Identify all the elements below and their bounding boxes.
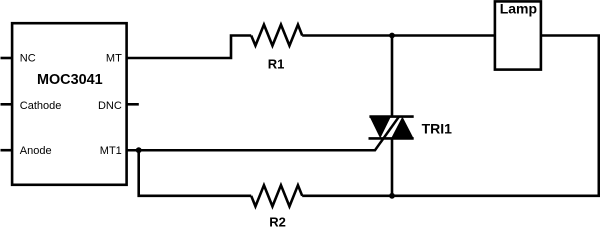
label TRI1 [422, 120, 453, 136]
label R1 [268, 56, 285, 71]
svg-text:R2: R2 [269, 214, 286, 229]
svg-text:R1: R1 [268, 56, 285, 71]
svg-text:MT: MT [106, 53, 122, 65]
triac TRI1 [369, 117, 414, 139]
optocoupler U1 MOC3041 body [12, 23, 127, 185]
junction dot bottom node [389, 193, 395, 199]
resistor R1 [251, 25, 302, 46]
pin label MT [106, 53, 122, 65]
label R2 [269, 214, 286, 229]
wire MT1 pin to triac gate [127, 116, 400, 150]
pin label Anode [20, 145, 52, 157]
wire R2 to MT1 drop [139, 150, 252, 196]
pin DNC stub [127, 103, 139, 106]
svg-text:Lamp: Lamp [500, 0, 537, 16]
pin label DNC [98, 100, 122, 112]
wire R1 to Lamp (top rail) [302, 34, 495, 37]
junction dot MT1 node [136, 147, 142, 153]
svg-text:TRI1: TRI1 [422, 120, 453, 136]
svg-text:NC: NC [20, 53, 36, 65]
wire Lamp right to right rail [392, 36, 599, 196]
lamp L1 body [495, 1, 541, 69]
svg-text:MT1: MT1 [100, 145, 122, 157]
svg-text:Anode: Anode [20, 145, 52, 157]
svg-text:MOC3041: MOC3041 [37, 72, 103, 88]
pin NC stub [1, 57, 13, 60]
svg-text:Cathode: Cathode [20, 100, 62, 112]
wire triac MT1 vertical lower [391, 138, 394, 195]
pin Cathode stub [1, 103, 13, 106]
pin label MT1 [100, 145, 122, 157]
label Lamp [500, 0, 537, 16]
pin Anode stub [1, 149, 13, 152]
wire bottom rail junction to R2 [302, 195, 392, 198]
part number label MOC3041 [37, 72, 103, 88]
pin label NC [20, 53, 36, 65]
wire MT pin to R1 (jog up) [127, 36, 252, 59]
resistor R2 [251, 185, 302, 206]
wire triac MT2 vertical upper [391, 36, 394, 117]
pin label Cathode [20, 100, 62, 112]
junction dot top node [389, 33, 395, 39]
svg-text:DNC: DNC [98, 100, 122, 112]
